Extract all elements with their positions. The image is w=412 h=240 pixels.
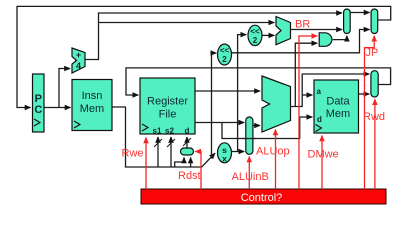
control bar Control? <box>141 189 386 204</box>
wire +4 adder output to BR mux (top long wire) <box>85 13 342 60</box>
JP mux <box>371 9 378 34</box>
svg-text:BR: BR <box>295 19 310 31</box>
red control wire JP <box>365 36 375 189</box>
shift left 2 branch ellipse <box>248 25 262 45</box>
wire ALU output <box>291 74 370 107</box>
svg-text:s1: s1 <box>153 127 162 136</box>
wire sign extend output to ALUinB mux <box>232 151 245 153</box>
bus slash s2 <box>167 139 175 147</box>
register file <box>140 78 195 136</box>
wire ALU output branch to Data Mem a <box>302 94 312 96</box>
BR mux <box>344 9 351 34</box>
data memory <box>314 80 359 133</box>
svg-text:<<: << <box>220 46 230 55</box>
svg-text:Rwe: Rwe <box>122 148 144 160</box>
Rdst mux <box>181 148 194 155</box>
svg-text:File: File <box>159 109 177 121</box>
red control wire Rdst <box>195 152 201 190</box>
wire branch <<2 output to adder <box>262 34 274 36</box>
wire ALU zero to AND gate <box>295 43 317 106</box>
svg-text:2: 2 <box>253 36 258 45</box>
wire immediate riser to branch <<2 <box>238 35 247 152</box>
red control wire DMwe <box>321 136 323 190</box>
wire PC output to Insn Mem <box>44 107 71 109</box>
svg-text:<<: << <box>250 27 260 36</box>
svg-text:Mem: Mem <box>80 103 104 115</box>
wire BR mux output to JP mux <box>350 12 369 14</box>
bus slash d <box>183 138 191 146</box>
svg-text:ALUop: ALUop <box>256 146 290 158</box>
shift left 2 jump ellipse <box>218 44 232 65</box>
wire Rdst mux left input <box>175 158 184 168</box>
red control wire Rwe <box>145 138 147 190</box>
svg-text:Mem: Mem <box>326 108 350 120</box>
sign extend ellipse <box>218 143 232 164</box>
wire Rdst mux right input <box>190 158 192 168</box>
branch adder <box>276 17 291 45</box>
wire branch adder output to BR mux <box>291 29 343 31</box>
svg-text:Insn: Insn <box>82 90 103 102</box>
svg-text:JP: JP <box>366 47 379 59</box>
svg-text:d: d <box>185 127 190 136</box>
wire AND gate output to BR mux select <box>333 36 347 40</box>
bus slash s1 <box>154 139 162 147</box>
svg-text:DMwe: DMwe <box>308 149 339 161</box>
wire insn bus from Insn Mem down and right to sign extend <box>112 107 215 167</box>
wire store data crossing over ALUinB mux <box>244 138 256 140</box>
wire writeback from Rwd mux to Register File <box>126 68 391 95</box>
wire s2 riser into Register File <box>170 137 172 167</box>
red control wire Rwd <box>374 99 376 189</box>
wire Data Mem output to Rwd mux <box>359 93 370 95</box>
red control wire ALUinB <box>248 157 250 190</box>
svg-text:2: 2 <box>222 55 227 64</box>
ALUinB mux <box>246 117 253 154</box>
svg-text:x: x <box>222 154 227 164</box>
wire ALUinB mux output to ALU <box>253 125 260 127</box>
svg-text:a: a <box>317 87 322 96</box>
Rwd mux <box>371 71 378 97</box>
wire PC+4 to branch adder <box>99 22 275 24</box>
register PC <box>33 74 45 132</box>
wire store data fork to Data Mem d <box>222 117 312 139</box>
svg-text:Rwd: Rwd <box>363 111 385 123</box>
wire jump <<2 feed riser <box>212 53 217 159</box>
AND gate <box>319 33 332 47</box>
svg-text:s2: s2 <box>165 127 174 136</box>
svg-text:Control?: Control? <box>241 192 283 204</box>
svg-text:Rdst: Rdst <box>178 170 201 182</box>
red control wire BR <box>299 36 317 189</box>
wire s1 riser into Register File <box>157 137 159 167</box>
wire jump target to JP mux <box>232 30 370 53</box>
svg-text:C: C <box>34 104 42 116</box>
plus-4 adder <box>72 48 85 73</box>
ALU <box>262 76 291 132</box>
svg-text:4: 4 <box>76 61 81 71</box>
svg-text:d: d <box>317 115 322 124</box>
insn memory <box>72 80 112 131</box>
wire next-PC feedback from JP mux to PC <box>17 6 391 107</box>
wire s1 data to ALU <box>195 90 260 92</box>
svg-text:ALUinB: ALUinB <box>232 171 269 183</box>
wire PC output riser to +4 adder <box>59 69 70 108</box>
svg-text:+: + <box>76 50 81 60</box>
wire s2 data to ALUinB mux <box>195 122 244 124</box>
red control wire ALUop <box>275 130 277 190</box>
wire Rdst mux output to d port <box>186 137 188 148</box>
svg-text:Data: Data <box>326 96 350 108</box>
svg-text:Register: Register <box>147 96 188 108</box>
